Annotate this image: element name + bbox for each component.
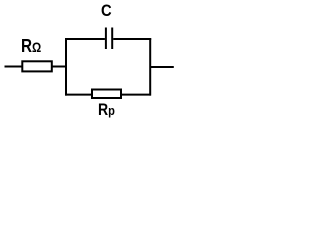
wire top branch right [113, 38, 151, 40]
label R-ohm [21, 36, 41, 57]
wire output right [150, 66, 174, 68]
wire bottom branch left [65, 94, 92, 96]
wire input left [5, 66, 23, 68]
resistor Rp body [92, 90, 121, 99]
wire right vertical branch [149, 38, 151, 95]
wire top branch left [65, 38, 105, 40]
wire left vertical branch [65, 38, 67, 95]
wire bottom branch right [121, 94, 151, 96]
capacitor C left plate [105, 28, 107, 50]
label C [101, 1, 112, 21]
capacitor C right plate [111, 28, 113, 50]
wire resistor to left node [52, 66, 67, 68]
resistor R-ohm body [22, 61, 52, 71]
label Rp [98, 101, 115, 120]
